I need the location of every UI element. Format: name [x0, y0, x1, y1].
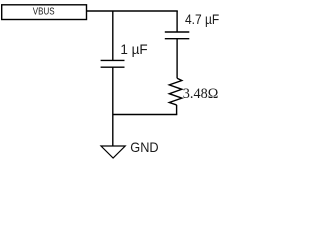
svg-text:GND: GND	[130, 140, 158, 155]
svg-text:4.7 µF: 4.7 µF	[185, 12, 219, 28]
svg-text:1 µF: 1 µF	[120, 42, 147, 57]
svg-text:VBUS: VBUS	[33, 6, 55, 17]
svg-text:3.48Ω: 3.48Ω	[183, 85, 219, 101]
